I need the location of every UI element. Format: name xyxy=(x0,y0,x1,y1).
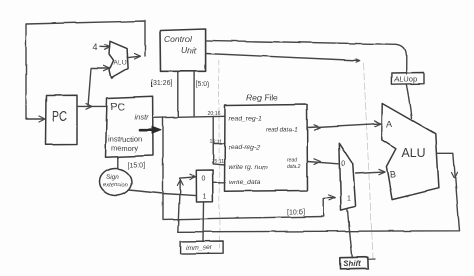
wire 4 into adder xyxy=(100,46,109,48)
svg-text:1: 1 xyxy=(347,196,351,203)
instruction memory box xyxy=(106,96,154,157)
wire mux out to write_data xyxy=(213,181,225,183)
control unit U1 xyxy=(160,29,206,71)
wire bus [15:0]/[10:6] long path to right mux input 1 xyxy=(163,118,335,220)
svg-text:0: 0 xyxy=(202,176,206,183)
wire sign extension out to mux input 1 xyxy=(129,190,197,196)
sign extension unit xyxy=(100,169,132,196)
pencil guide line left xyxy=(218,60,221,248)
wire write reg num input xyxy=(213,164,225,165)
svg-text:write_data: write_data xyxy=(229,179,261,186)
wire control out 2 xyxy=(206,54,359,61)
svg-text:ALUop: ALUop xyxy=(394,75,417,84)
svg-text:PC: PC xyxy=(52,109,67,125)
wire right mux select to Shift xyxy=(347,210,352,258)
wire read reg 2 input xyxy=(213,143,225,145)
wire adder output xyxy=(128,56,140,57)
svg-text:Reg File: Reg File xyxy=(246,93,278,103)
ALUop box xyxy=(391,73,424,85)
svg-text:read data-1: read data-1 xyxy=(266,127,298,134)
wire instr bus to reg file xyxy=(153,116,225,118)
svg-text:read_reg-1: read_reg-1 xyxy=(229,116,262,123)
PC box xyxy=(46,95,78,145)
svg-text:[15:0]: [15:0] xyxy=(128,163,146,170)
svg-text:read-reg-2: read-reg-2 xyxy=(229,145,261,152)
mux M1 (write register select) xyxy=(196,170,213,202)
register file xyxy=(225,105,308,192)
svg-text:20:16: 20:16 xyxy=(208,111,221,117)
svg-text:Sign: Sign xyxy=(106,174,119,181)
svg-text:imm_sel: imm_sel xyxy=(186,245,212,252)
svg-text:[10:6]: [10:6] xyxy=(287,209,305,216)
wire PC feedback loop (PC+4 to PC) xyxy=(26,21,145,119)
wire control [31:26] vertical xyxy=(177,71,179,117)
wire right mux out to ALU B xyxy=(356,172,384,174)
adder (PC+4 ALU) xyxy=(109,41,128,78)
pencil guide line right xyxy=(364,63,374,258)
mux M2 (ALU operand B select) xyxy=(339,143,355,210)
svg-text:Control: Control xyxy=(164,34,193,44)
wire read data 2 to mux xyxy=(308,162,339,164)
wire bus field vertical to read regs xyxy=(212,117,214,164)
wire PC to instruction memory xyxy=(77,105,107,107)
svg-text:ALU: ALU xyxy=(402,146,426,160)
svg-text:instruction: instruction xyxy=(108,135,142,144)
svg-text:memory: memory xyxy=(111,144,138,153)
svg-text:1: 1 xyxy=(203,194,207,201)
wire shift tick xyxy=(368,258,375,260)
svg-text:4: 4 xyxy=(93,43,98,53)
svg-text:Unit: Unit xyxy=(181,46,197,56)
svg-text:data.2: data.2 xyxy=(287,164,301,170)
svg-text:A: A xyxy=(387,119,393,129)
svg-text:ALU: ALU xyxy=(114,60,128,67)
wire read data 1 to ALU A xyxy=(308,124,381,128)
ALU (main) xyxy=(382,104,439,200)
thick instr arrow xyxy=(140,129,155,132)
svg-text:write rg. num: write rg. num xyxy=(229,164,269,171)
svg-text:B: B xyxy=(390,170,396,180)
svg-text:read: read xyxy=(287,157,297,163)
svg-text:instr: instr xyxy=(135,113,150,122)
Shift box xyxy=(340,257,368,269)
svg-text:extension: extension xyxy=(103,183,128,189)
wire ALU result feedback to mux input 0 xyxy=(178,177,195,232)
wire arrow into PC xyxy=(26,118,44,120)
imm_sel box xyxy=(181,241,224,254)
wire control top out to ALUop xyxy=(206,40,407,74)
svg-text:[31:26]: [31:26] xyxy=(151,80,172,87)
svg-text:PC: PC xyxy=(111,101,126,113)
svg-text:0: 0 xyxy=(342,161,346,168)
svg-text:Shift: Shift xyxy=(343,260,361,269)
wire mux select to imm_sel xyxy=(202,202,205,241)
svg-text:15:11: 15:11 xyxy=(212,159,225,165)
wire ALUop to ALU xyxy=(406,84,411,118)
svg-text:15:11: 15:11 xyxy=(210,139,223,145)
wire adder lower input from PC line xyxy=(88,69,109,107)
svg-text:[5:0]: [5:0] xyxy=(196,81,210,88)
wire control [5:0] vertical xyxy=(193,71,195,116)
wire instr mem to sign extension xyxy=(117,157,119,168)
wire ALU out down and to left mux0 xyxy=(178,153,460,232)
